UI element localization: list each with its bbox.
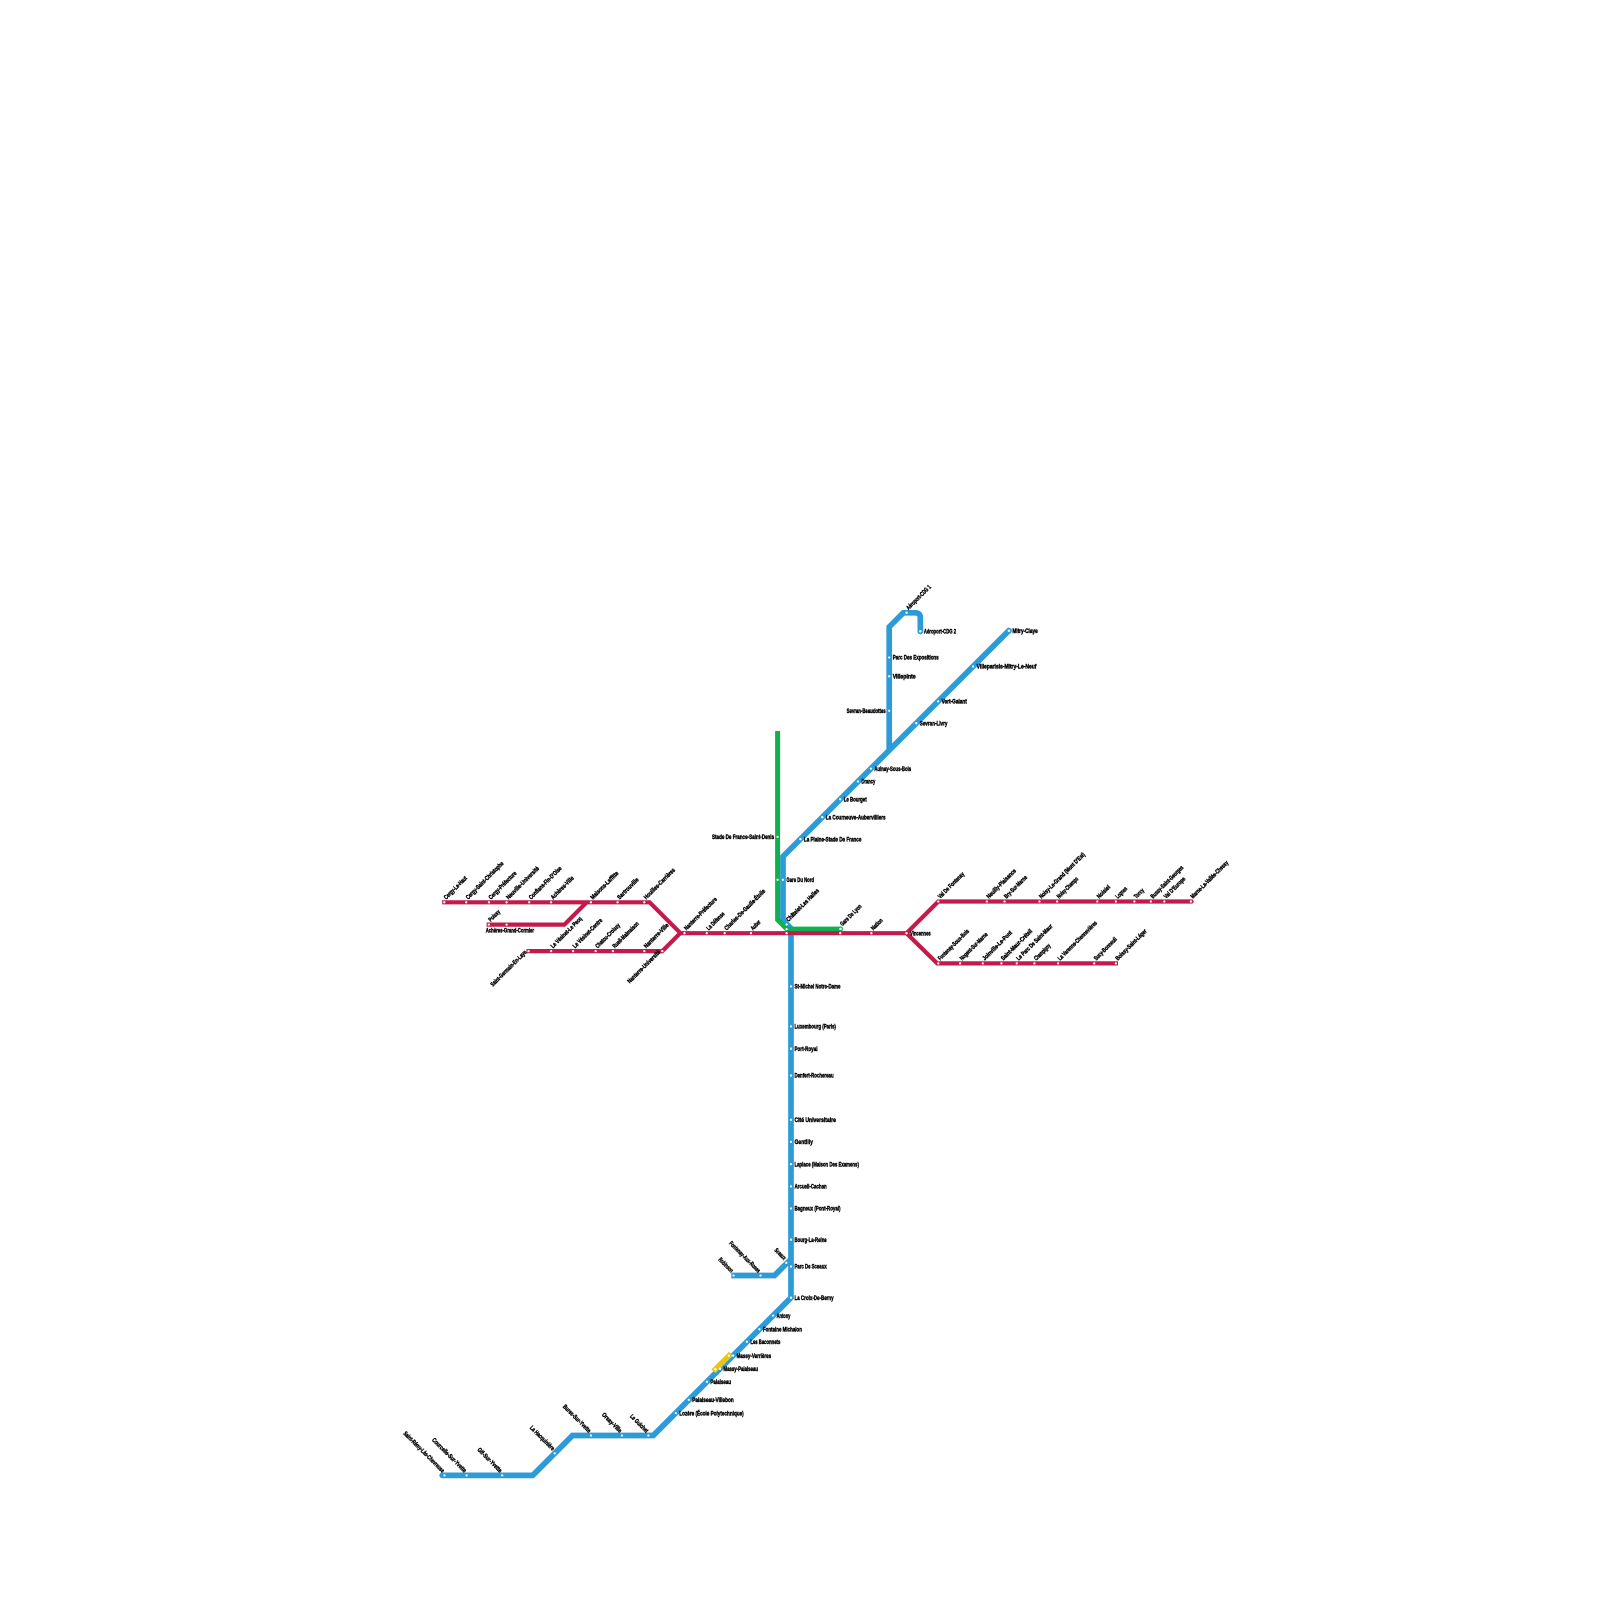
station dot Le Bourget (#2C9BD7) (839, 798, 841, 800)
station dot Nation (#C41A4B) (870, 932, 872, 934)
svg-text:Villeparisis-Mitry-Le-Neuf: Villeparisis-Mitry-Le-Neuf (977, 664, 1038, 671)
station dot Denfert-Rochereau (#2C9BD7) (790, 1074, 792, 1076)
station dot Lozère (École Polytechnique) (#2C9BD7) (675, 1412, 677, 1414)
station dot Cergy-Préfecture (#C41A4B) (488, 901, 490, 903)
svg-text:Parc De Sceaux: Parc De Sceaux (795, 1264, 828, 1271)
station dot Noisiel (#C41A4B) (1096, 900, 1098, 902)
station dot Aulnay-Sous-Bois (#2C9BD7) (870, 767, 872, 769)
station dot interchange dot (#0FB050) (785, 928, 787, 930)
station dot Massy-Verrieres RER C (728, 1355, 730, 1357)
svg-text:Vincennes: Vincennes (910, 930, 931, 937)
station dot La Défense (#C41A4B) (706, 932, 708, 934)
svg-text:Le Bourget: Le Bourget (844, 797, 867, 804)
station dot Le Vésinet-Le Pecq (#C41A4B) (550, 950, 552, 952)
station dot La Plaine-Stade De France (#2C9BD7) (799, 838, 801, 840)
station dot Le Vésinet-Centre (#C41A4B) (572, 950, 574, 952)
svg-text:Antony: Antony (777, 1313, 791, 1320)
station dot Noisy-Champs (#C41A4B) (1056, 900, 1058, 902)
svg-text:St-Michel Notre-Dame: St-Michel Notre-Dame (795, 984, 841, 991)
station dot Achères-Grand-Cormier (#C41A4B) (505, 923, 507, 925)
terminus ring Mitry-Claye (1006, 628, 1012, 634)
station dot Fontenay-Aux-Roses (#2C9BD7) (759, 1274, 761, 1276)
station dot Bures-Sur-Yvette (#2C9BD7) (590, 1434, 592, 1436)
station dot Sevran-Beaudottes (#2C9BD7) (888, 710, 890, 712)
svg-text:Denfert-Rochereau: Denfert-Rochereau (795, 1073, 834, 1080)
station dot Cergy-Saint-Christophe (#C41A4B) (465, 901, 467, 903)
station dot Arcueil-Cachan (#2C9BD7) (790, 1185, 792, 1187)
station dot Neuville-Université (#C41A4B) (505, 901, 507, 903)
station dot Palaiseau-Villebon (#2C9BD7) (688, 1399, 690, 1401)
station dot Saint-Maur-Créteil (#C41A4B) (1000, 962, 1002, 964)
station dot Rueil-Malmaison (#C41A4B) (612, 950, 614, 952)
svg-text:Bourg-La-Reine: Bourg-La-Reine (795, 1237, 828, 1244)
svg-text:Bagneux (Pont-Royal): Bagneux (Pont-Royal) (795, 1206, 841, 1213)
station dot interchange dot (#E8C419) (714, 1368, 717, 1371)
station dot Sartrouville (#C41A4B) (616, 901, 618, 903)
svg-text:Luxembourg (Paris): Luxembourg (Paris) (795, 1024, 836, 1031)
svg-text:La Plaine-Stade De France: La Plaine-Stade De France (804, 836, 862, 843)
station dot Champigny (#C41A4B) (1033, 962, 1035, 964)
station dot Massy-Verrières (#2C9BD7) (732, 1354, 734, 1356)
station dot Vincennes (#C41A4B) (905, 932, 907, 934)
station dot Fontaine Michalon (#2C9BD7) (758, 1328, 760, 1330)
station dot Nanterre-Université (#C41A4B) (661, 950, 663, 952)
svg-text:Port-Royal: Port-Royal (795, 1046, 818, 1053)
svg-text:Cité Universitaire: Cité Universitaire (795, 1117, 837, 1124)
svg-text:Arcueil-Cachan: Arcueil-Cachan (795, 1184, 827, 1191)
svg-text:Sevran-Livry: Sevran-Livry (920, 720, 948, 727)
station dot Auber (#C41A4B) (750, 932, 752, 934)
station dot Fontenay-Sous-Bois (#C41A4B) (937, 962, 939, 964)
wire RER C fragment at Massy (713, 1354, 731, 1372)
station dot Aéroport-CDG 2 (#2C9BD7) (919, 630, 922, 633)
station dot Conflans-Fin-D'Oise (#C41A4B) (528, 901, 530, 903)
svg-text:La Croix-De-Berny: La Croix-De-Berny (795, 1295, 834, 1302)
svg-text:Drancy: Drancy (862, 779, 876, 786)
station dot Le Guichet (#2C9BD7) (647, 1434, 649, 1436)
svg-text:Achères-Grand-Cormier: Achères-Grand-Cormier (486, 927, 535, 934)
station dot Sceaux (#2C9BD7) (785, 1262, 787, 1264)
station dot Les Baconnets (#2C9BD7) (746, 1341, 748, 1343)
station dot Charles-De-Gaulle-Étoile (#C41A4B) (724, 932, 726, 934)
svg-text:Les Baconnets: Les Baconnets (750, 1339, 780, 1346)
station dot Antony (#2C9BD7) (772, 1314, 774, 1316)
wire RER B CDG-airport branch (889, 613, 920, 750)
wire RER B main line Mitry-Claye to Saint-Remy (442, 631, 1009, 1476)
station dot La Courneuve-Aubervilliers (#2C9BD7) (821, 816, 823, 818)
station dot Marne-La-Vallée-Chessy (#C41A4B) (1190, 900, 1192, 902)
terminus ring RER C Massy (713, 1367, 718, 1372)
station dot Parc De Sceaux (#2C9BD7) (790, 1265, 792, 1267)
station dot Poissy (#C41A4B) (488, 923, 490, 925)
station dot Sevran-Livry (#2C9BD7) (915, 722, 917, 724)
svg-text:La Courneuve-Aubervilliers: La Courneuve-Aubervilliers (826, 814, 886, 821)
station dot Gare De Lyon (#0FB050) (839, 928, 842, 931)
station dot St-Michel Notre-Dame (#2C9BD7) (790, 985, 792, 987)
station dot Houilles-Carrières (#C41A4B) (643, 901, 645, 903)
svg-text:Lozère (École Polytechnique): Lozère (École Polytechnique) (679, 1409, 743, 1417)
station dot Gentilly (#2C9BD7) (790, 1141, 792, 1143)
svg-text:Palaiseau-Villebon: Palaiseau-Villebon (692, 1397, 734, 1404)
station dot Bry-Sur-Marne (#C41A4B) (1003, 900, 1005, 902)
station dot Val D'Europe (#C41A4B) (1163, 900, 1165, 902)
station dot Achères-Ville (#C41A4B) (550, 901, 552, 903)
station dot Cergy-Le-Haut (#C41A4B) (443, 901, 445, 903)
station dot Parc Des Expositions (#2C9BD7) (888, 656, 890, 658)
station dot Maisons-Laffitte (#C41A4B) (590, 901, 592, 903)
station dot Gare Du Nord (#2C9BD7) (782, 879, 784, 881)
station dot Stade De France-Saint-Denis (#0FB050) (776, 836, 778, 838)
station dot Saint-Rémy-Lès-Chevreuse (#2C9BD7) (443, 1474, 445, 1476)
svg-text:Stade De France-Saint-Denis: Stade De France-Saint-Denis (712, 834, 775, 841)
station dot Saint-Germain-En-Laye (#C41A4B) (527, 950, 529, 952)
svg-text:Aulnay-Sous-Bois: Aulnay-Sous-Bois (874, 766, 911, 773)
station dot Val De Fontenay (#C41A4B) (937, 900, 939, 902)
station dot Bagneux (Pont-Royal) (#2C9BD7) (790, 1207, 792, 1209)
terminus ring Aéroport-CDG 2 (917, 628, 923, 634)
svg-text:Vert-Galant: Vert-Galant (942, 699, 967, 706)
station dot Châtelet-Les Halles (#2C9BD7) (785, 923, 787, 925)
svg-text:Villepinte: Villepinte (893, 674, 916, 681)
station dot Villeparisis-Mitry-Le-Neuf (#2C9BD7) (972, 665, 974, 667)
station dot interchange dot (#C41A4B) (785, 932, 787, 934)
station dot Sucy-Bonneuil (#C41A4B) (1093, 962, 1095, 964)
station dot Port-Royal (#2C9BD7) (790, 1048, 792, 1050)
station dot Gif-Sur-Yvette (#2C9BD7) (501, 1474, 503, 1476)
wire RER B Robinson branch (731, 1259, 791, 1276)
station dot Orsay-Ville (#2C9BD7) (621, 1434, 623, 1436)
station dot Courcelle-Sur-Yvette (#2C9BD7) (465, 1474, 467, 1476)
wire RER A Marne-la-Vallee branch (907, 902, 1192, 934)
terminus ring Gare de Lyon RER D (838, 926, 843, 931)
station dot La Hacquinière (#2C9BD7) (554, 1452, 556, 1454)
station dot Neuilly-Plaisance (#C41A4B) (986, 900, 988, 902)
svg-text:Laplace (Maison Des Examens): Laplace (Maison Des Examens) (795, 1161, 859, 1168)
station dot Vert-Galant (#2C9BD7) (937, 700, 939, 702)
station dot Drancy (#2C9BD7) (857, 780, 859, 782)
svg-text:Gentilly: Gentilly (795, 1139, 814, 1146)
station dot Aéroport-CDG 1 (#2C9BD7) (905, 612, 907, 614)
station dot Noisy-Le-Grand (Mont D'Est) (#C41A4B) (1038, 900, 1040, 902)
station dot Chatou-Croissy (#C41A4B) (595, 950, 597, 952)
station dot Bourg-La-Reine (#2C9BD7) (790, 1239, 792, 1241)
station dot Mitry-Claye (#2C9BD7) (1008, 629, 1011, 632)
station dot Nanterre-Préfecture (#C41A4B) (683, 932, 685, 934)
svg-text:Parc Des Expositions: Parc Des Expositions (893, 655, 939, 662)
station dot Boissy-Saint-Léger (#C41A4B) (1115, 962, 1117, 964)
station dot interchange dot (#0FB050) (776, 879, 778, 881)
station dot Nanterre-Ville (#C41A4B) (643, 950, 645, 952)
wire RER A Saint-Germain branch (526, 933, 680, 951)
station dot Bussy-Saint-Georges (#C41A4B) (1150, 900, 1152, 902)
svg-text:Mitry-Claye: Mitry-Claye (1012, 628, 1038, 635)
svg-text:Palaiseau: Palaiseau (710, 1379, 731, 1386)
svg-text:Gare Du Nord: Gare Du Nord (786, 877, 814, 884)
station dot Massy-Palaiseau (#2C9BD7) (719, 1368, 721, 1370)
station dot Torcy (#C41A4B) (1133, 900, 1135, 902)
station dot Joinville-Le-Pont (#C41A4B) (982, 962, 984, 964)
station dot Luxembourg (Paris) (#2C9BD7) (790, 1025, 792, 1027)
station dot La Varenne-Chennevières (#C41A4B) (1057, 962, 1059, 964)
station dot La Croix-De-Berny (#2C9BD7) (790, 1297, 792, 1299)
svg-text:Aéroport-CDG 2: Aéroport-CDG 2 (924, 629, 957, 636)
station dot Villepinte (#2C9BD7) (888, 675, 890, 677)
station dot Robinson (#2C9BD7) (732, 1274, 734, 1276)
svg-text:Massy-Verrières: Massy-Verrières (737, 1353, 772, 1360)
svg-text:Sevran-Beaudottes: Sevran-Beaudottes (847, 708, 886, 715)
station dot Palaiseau (#2C9BD7) (706, 1381, 708, 1383)
svg-text:Fontaine Michalon: Fontaine Michalon (763, 1327, 802, 1334)
wire RER A trunk and Cergy branch (442, 902, 906, 933)
station dot Le Parc De Saint-Maur (#C41A4B) (1016, 962, 1018, 964)
station dot Cité Universitaire (#2C9BD7) (790, 1119, 792, 1121)
station dot interchange dot (#C41A4B) (839, 932, 841, 934)
station dot Laplace (Maison Des Examens) (#2C9BD7) (790, 1163, 792, 1165)
station dot Nogent-Sur-Marne (#C41A4B) (959, 962, 961, 964)
wire RER D segment (778, 731, 841, 929)
wire RER A Poissy branch (487, 902, 587, 924)
station dot Lognes (#C41A4B) (1115, 900, 1117, 902)
wire RER A Boissy branch (907, 933, 1119, 963)
svg-text:Massy-Palaiseau: Massy-Palaiseau (724, 1366, 759, 1373)
